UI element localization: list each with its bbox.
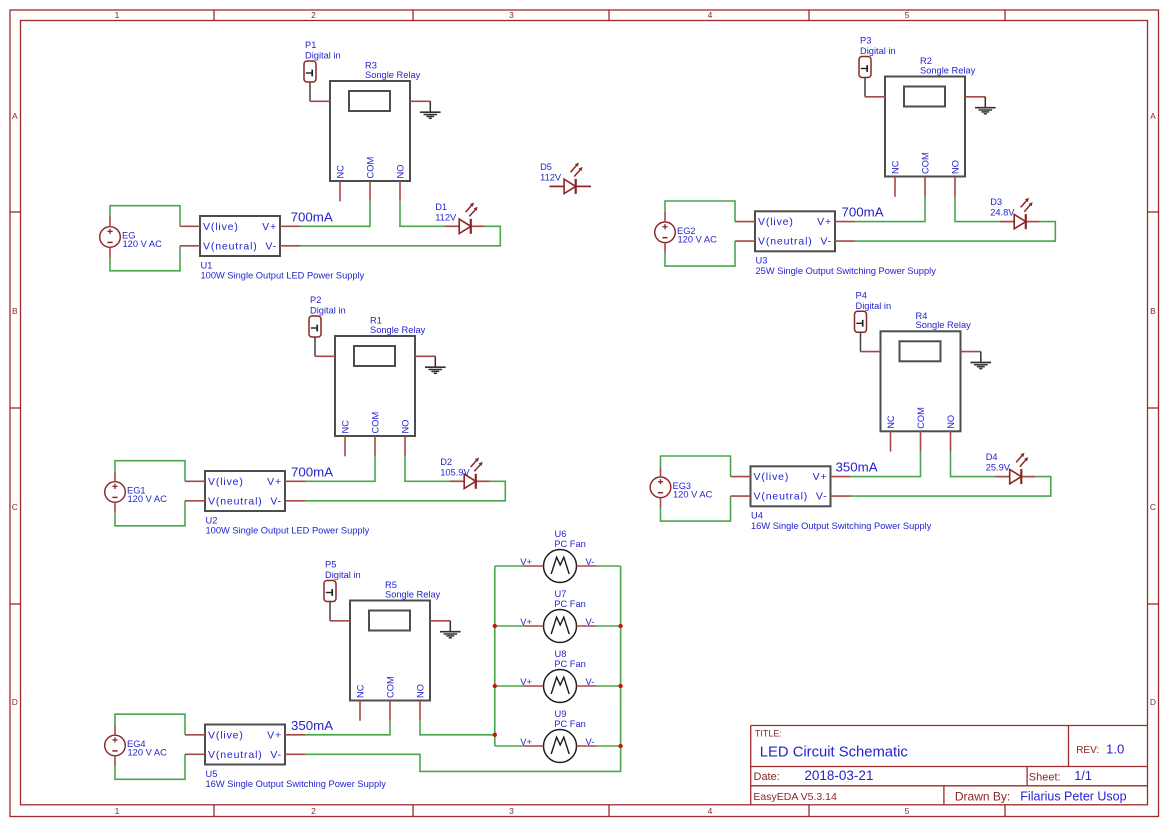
wire <box>110 246 180 271</box>
svg-text:U6: U6 <box>555 529 567 539</box>
svg-text:REV:: REV: <box>1076 745 1099 756</box>
svg-text:Date:: Date: <box>754 771 780 783</box>
svg-text:V(neutral): V(neutral) <box>208 495 263 507</box>
svg-text:Digital in: Digital in <box>856 301 892 311</box>
svg-text:U3: U3 <box>756 256 768 266</box>
wire <box>115 461 185 482</box>
svg-text:Songle Relay: Songle Relay <box>920 65 976 75</box>
svg-text:PC Fan: PC Fan <box>554 599 586 609</box>
svg-text:700mA: 700mA <box>291 209 333 224</box>
svg-text:120 V AC: 120 V AC <box>128 494 168 504</box>
svg-text:25W Single Output Switching Po: 25W Single Output Switching Power Supply <box>756 266 937 276</box>
svg-text:D: D <box>12 697 18 707</box>
svg-text:V-: V- <box>816 491 828 503</box>
svg-text:P1: P1 <box>305 40 316 50</box>
svg-text:U4: U4 <box>751 511 763 521</box>
svg-text:V-: V- <box>270 749 282 761</box>
wire <box>951 452 996 477</box>
wire <box>305 566 621 771</box>
svg-text:LED Circuit Schematic: LED Circuit Schematic <box>760 744 909 760</box>
svg-text:5: 5 <box>905 10 910 20</box>
wire <box>661 456 731 477</box>
svg-text:V-: V- <box>586 737 595 747</box>
svg-text:V+: V+ <box>262 221 277 233</box>
wire <box>405 456 450 481</box>
svg-text:B: B <box>1150 306 1156 316</box>
wire <box>855 222 1055 242</box>
svg-text:NO: NO <box>401 420 411 434</box>
svg-text:P3: P3 <box>860 36 871 46</box>
wire <box>495 565 524 567</box>
junction <box>493 733 497 737</box>
voltage source EG4 <box>105 725 167 766</box>
svg-text:NC: NC <box>886 415 896 429</box>
svg-text:350mA: 350mA <box>291 718 333 733</box>
svg-text:350mA: 350mA <box>836 460 878 475</box>
svg-text:Songle Relay: Songle Relay <box>370 325 426 335</box>
wire <box>420 721 495 735</box>
svg-text:D: D <box>1150 697 1156 707</box>
wire <box>305 481 505 501</box>
svg-text:V+: V+ <box>267 476 282 488</box>
svg-text:D4: D4 <box>986 452 998 462</box>
svg-text:C: C <box>1150 502 1156 512</box>
wire <box>314 337 316 356</box>
power supply U3 <box>735 211 936 276</box>
ground <box>425 356 446 373</box>
svg-text:V+: V+ <box>520 557 532 567</box>
wire <box>495 745 524 747</box>
svg-text:C: C <box>12 502 18 512</box>
svg-text:NO: NO <box>946 415 956 429</box>
svg-text:Digital in: Digital in <box>325 570 361 580</box>
svg-text:2: 2 <box>311 806 316 816</box>
ground <box>971 352 992 369</box>
svg-text:Songle Relay: Songle Relay <box>916 320 972 330</box>
junction <box>618 624 622 628</box>
svg-text:Digital in: Digital in <box>310 306 346 316</box>
svg-text:1/1: 1/1 <box>1074 769 1091 783</box>
svg-text:V-: V- <box>586 677 595 687</box>
svg-text:700mA: 700mA <box>291 464 333 479</box>
wire <box>661 496 731 521</box>
svg-text:Digital in: Digital in <box>305 51 341 61</box>
wire <box>665 241 735 266</box>
wire <box>400 201 445 226</box>
svg-text:16W Single Output Switching Po: 16W Single Output Switching Power Supply <box>206 779 387 789</box>
svg-text:U9: U9 <box>555 709 567 719</box>
svg-text:700mA: 700mA <box>842 205 884 220</box>
junction <box>493 684 497 688</box>
connector P3 <box>859 36 896 78</box>
wire <box>115 501 185 526</box>
svg-text:U8: U8 <box>555 649 567 659</box>
fan U9 <box>520 709 596 763</box>
LED D5 <box>540 162 591 194</box>
svg-text:PC Fan: PC Fan <box>554 539 586 549</box>
svg-text:P2: P2 <box>310 295 321 305</box>
svg-text:D3: D3 <box>990 197 1002 207</box>
power supply U1 <box>180 216 365 281</box>
junction <box>493 624 497 628</box>
svg-text:100W Single Output LED Power S: 100W Single Output LED Power Supply <box>201 271 365 281</box>
junction <box>618 684 622 688</box>
svg-text:24.8V: 24.8V <box>990 208 1015 218</box>
svg-text:120 V AC: 120 V AC <box>678 234 718 244</box>
svg-text:V(live): V(live) <box>208 729 244 741</box>
svg-text:NO: NO <box>951 160 961 174</box>
svg-text:Songle Relay: Songle Relay <box>365 70 421 80</box>
svg-text:Sheet:: Sheet: <box>1029 771 1061 783</box>
connector P2 <box>309 295 346 337</box>
svg-text:PC Fan: PC Fan <box>554 719 586 729</box>
connector P1 <box>304 40 341 82</box>
svg-text:2018-03-21: 2018-03-21 <box>804 768 873 783</box>
svg-text:120 V AC: 120 V AC <box>673 489 713 499</box>
power supply U2 <box>185 471 370 536</box>
svg-text:V(neutral): V(neutral) <box>208 749 263 761</box>
svg-text:NC: NC <box>356 684 366 698</box>
svg-text:U1: U1 <box>201 260 213 270</box>
svg-text:Digital in: Digital in <box>860 46 896 56</box>
svg-text:NC: NC <box>341 420 351 434</box>
wire <box>851 477 1051 497</box>
svg-text:V-: V- <box>820 236 832 248</box>
svg-text:NC: NC <box>336 165 346 179</box>
junction <box>618 744 622 748</box>
svg-text:V(live): V(live) <box>754 471 790 483</box>
svg-text:V(live): V(live) <box>758 216 794 228</box>
wire <box>597 565 621 567</box>
wire <box>855 197 925 222</box>
relay R5 <box>330 580 450 721</box>
svg-text:V(neutral): V(neutral) <box>754 491 809 503</box>
svg-text:V(live): V(live) <box>203 221 239 233</box>
wire <box>851 452 921 477</box>
svg-text:P4: P4 <box>856 290 867 300</box>
LED D4 <box>986 452 1035 484</box>
svg-text:V(live): V(live) <box>208 476 244 488</box>
connector P4 <box>855 290 892 332</box>
power supply U5 <box>185 725 386 790</box>
svg-text:V+: V+ <box>817 216 832 228</box>
svg-text:V+: V+ <box>520 737 532 747</box>
svg-text:Filarius Peter Usop: Filarius Peter Usop <box>1020 789 1126 803</box>
svg-text:120 V AC: 120 V AC <box>128 748 168 758</box>
ground <box>975 97 996 114</box>
wire <box>110 206 180 227</box>
wire <box>495 625 524 627</box>
relay R3 <box>310 61 430 202</box>
voltage source EG <box>100 217 162 258</box>
wire <box>955 197 1000 222</box>
svg-text:V(neutral): V(neutral) <box>203 240 258 252</box>
svg-text:1: 1 <box>115 806 120 816</box>
title block <box>751 726 1148 805</box>
wire <box>300 226 500 246</box>
svg-text:V-: V- <box>586 617 595 627</box>
svg-text:5: 5 <box>905 806 910 816</box>
svg-text:Drawn By:: Drawn By: <box>955 789 1010 803</box>
svg-text:V-: V- <box>270 495 282 507</box>
wire <box>597 625 621 627</box>
svg-text:V+: V+ <box>813 471 828 483</box>
relay R2 <box>865 56 985 197</box>
svg-text:2: 2 <box>311 10 316 20</box>
wire <box>115 754 185 779</box>
wire <box>305 721 390 735</box>
wire <box>665 201 735 222</box>
LED D3 <box>990 197 1039 229</box>
svg-text:105.9V: 105.9V <box>440 467 470 477</box>
fan U8 <box>520 649 596 703</box>
wire <box>860 332 862 351</box>
fan U6 <box>520 529 596 583</box>
svg-text:NO: NO <box>396 165 406 179</box>
ground <box>420 101 441 118</box>
voltage source EG1 <box>105 472 167 513</box>
wire <box>597 685 621 687</box>
svg-text:V(neutral): V(neutral) <box>758 236 813 248</box>
fan U7 <box>520 589 596 643</box>
svg-text:3: 3 <box>509 10 514 20</box>
svg-text:D1: D1 <box>435 202 447 212</box>
wire <box>115 714 185 735</box>
wire <box>495 685 524 687</box>
svg-text:25.9V: 25.9V <box>986 463 1011 473</box>
svg-text:NO: NO <box>416 684 426 698</box>
svg-text:4: 4 <box>708 10 713 20</box>
svg-text:V+: V+ <box>520 617 532 627</box>
voltage source EG2 <box>655 212 717 253</box>
relay R1 <box>315 316 435 457</box>
svg-text:COM: COM <box>386 676 396 698</box>
relay R4 <box>861 311 981 452</box>
wire <box>597 745 621 747</box>
connector P5 <box>324 560 361 602</box>
svg-text:B: B <box>12 306 18 316</box>
svg-text:16W Single Output Switching Po: 16W Single Output Switching Power Supply <box>751 521 932 531</box>
svg-text:120 V AC: 120 V AC <box>123 239 163 249</box>
svg-text:V+: V+ <box>520 677 532 687</box>
svg-text:NC: NC <box>891 160 901 174</box>
svg-text:1: 1 <box>115 10 120 20</box>
wire <box>494 566 496 746</box>
svg-text:COM: COM <box>921 152 931 174</box>
svg-text:3: 3 <box>509 806 514 816</box>
svg-text:100W Single Output LED Power S: 100W Single Output LED Power Supply <box>206 526 370 536</box>
svg-text:U7: U7 <box>555 589 567 599</box>
svg-text:COM: COM <box>366 157 376 179</box>
wire <box>305 456 375 481</box>
wire <box>309 82 311 101</box>
svg-text:A: A <box>12 111 18 121</box>
power supply U4 <box>731 466 932 531</box>
svg-text:1.0: 1.0 <box>1106 741 1124 756</box>
ground <box>440 621 461 638</box>
svg-text:V-: V- <box>265 240 277 252</box>
svg-text:V+: V+ <box>267 729 282 741</box>
svg-text:V-: V- <box>586 557 595 567</box>
svg-text:U2: U2 <box>206 515 218 525</box>
svg-text:COM: COM <box>916 407 926 429</box>
svg-text:4: 4 <box>708 806 713 816</box>
wire <box>300 201 370 226</box>
svg-text:PC Fan: PC Fan <box>554 659 586 669</box>
svg-text:TITLE:: TITLE: <box>755 729 782 739</box>
svg-text:D2: D2 <box>440 457 452 467</box>
svg-text:112V: 112V <box>435 212 457 222</box>
LED D1 <box>435 202 484 234</box>
wire <box>864 78 866 97</box>
svg-text:D5: D5 <box>540 162 552 172</box>
svg-text:COM: COM <box>371 412 381 434</box>
svg-text:EasyEDA V5.3.14: EasyEDA V5.3.14 <box>753 791 837 803</box>
svg-text:Songle Relay: Songle Relay <box>385 589 441 599</box>
voltage source EG3 <box>650 467 712 508</box>
svg-text:U5: U5 <box>206 769 218 779</box>
svg-text:112V: 112V <box>540 173 562 183</box>
svg-text:A: A <box>1150 111 1156 121</box>
svg-text:P5: P5 <box>325 560 336 570</box>
LED D2 <box>440 457 489 489</box>
wire <box>329 602 331 621</box>
